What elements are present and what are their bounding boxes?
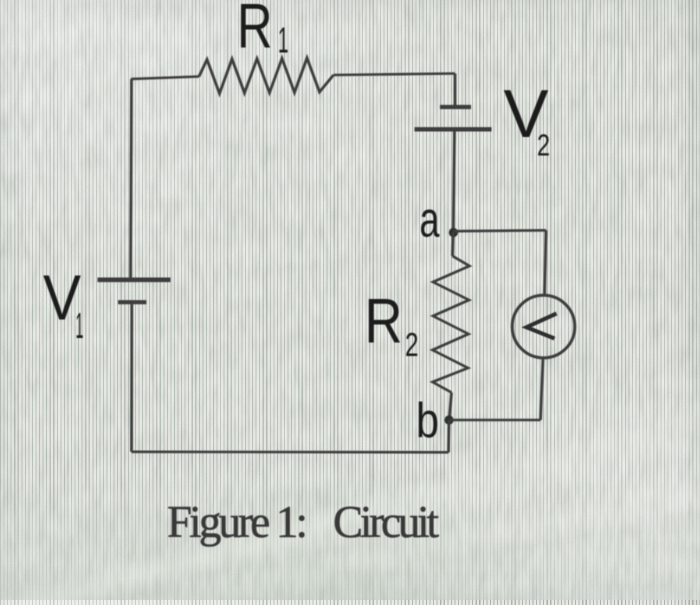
wire V2 to node a <box>453 129 454 232</box>
svg-text:R: R <box>237 0 273 62</box>
wire node b to bottom rail <box>447 420 450 452</box>
node a <box>449 228 458 237</box>
battery V2 short plate <box>440 105 471 109</box>
svg-text:1: 1 <box>76 305 84 346</box>
svg-text:2: 2 <box>405 326 419 363</box>
svg-text:Circuit: Circuit <box>333 497 439 547</box>
svg-text:2: 2 <box>537 128 550 163</box>
wire meter to bottom corner <box>541 358 544 420</box>
wire down to battery V2 <box>454 74 457 107</box>
bottom wire <box>132 450 449 453</box>
wire meter branch bottom to node b <box>449 419 541 422</box>
svg-text:R: R <box>365 287 403 357</box>
svg-text:1: 1 <box>278 20 289 61</box>
wire node a to meter branch top <box>453 229 546 232</box>
svg-text:a: a <box>420 192 440 248</box>
voltmeter circle <box>512 295 575 358</box>
wire meter branch top down to meter <box>545 230 547 295</box>
wire R2 to node b <box>449 393 451 421</box>
left wire up to battery V1 <box>130 303 133 452</box>
battery V1 short plate <box>118 300 146 304</box>
wire node a to R2 <box>451 232 455 256</box>
resistor R1 <box>199 58 334 94</box>
wire R1 to top-right corner <box>334 74 456 76</box>
svg-text:b: b <box>416 394 439 448</box>
node b <box>444 415 453 424</box>
resistor R2 <box>433 256 470 393</box>
wire top-left corner to R1 <box>131 77 199 80</box>
wire V1 up to top-left corner <box>131 79 132 280</box>
voltmeter rotated V symbol <box>527 314 557 339</box>
battery V2 long plate <box>415 127 492 131</box>
svg-text:Figure 1:: Figure 1: <box>167 497 308 547</box>
battery V1 long plate <box>98 277 171 282</box>
